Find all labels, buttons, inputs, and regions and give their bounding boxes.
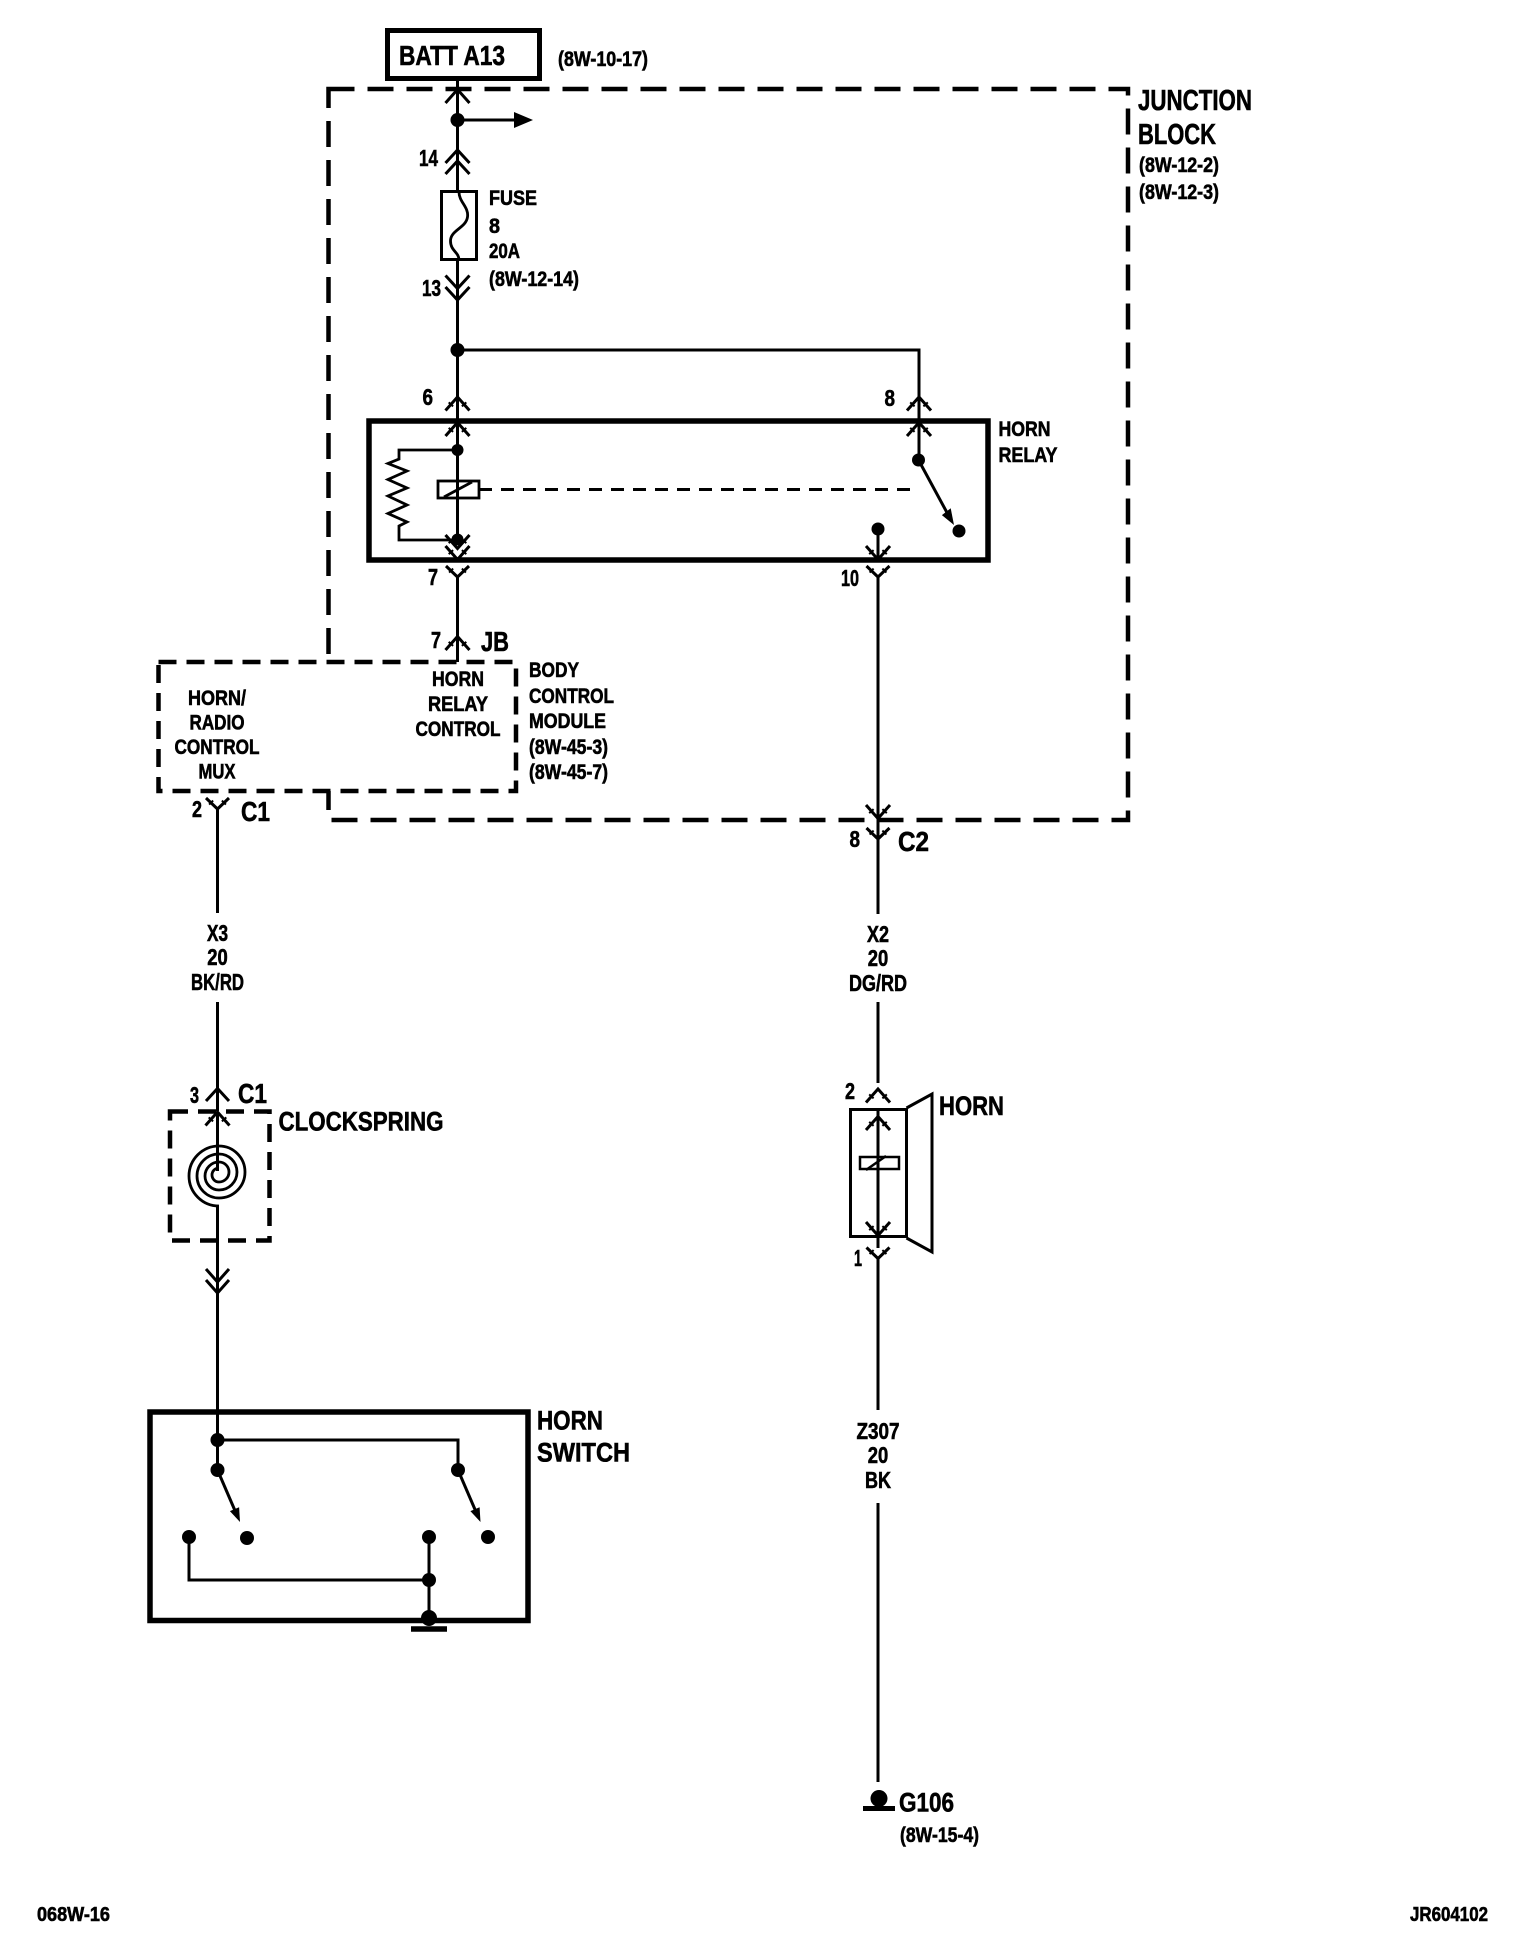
- svg-text:CONTROL: CONTROL: [529, 685, 614, 708]
- svg-text:20: 20: [207, 944, 228, 970]
- svg-text:RELAY: RELAY: [428, 693, 488, 716]
- svg-text:SWITCH: SWITCH: [537, 1438, 630, 1468]
- svg-text:3: 3: [190, 1082, 199, 1108]
- svg-text:HORN: HORN: [939, 1091, 1004, 1121]
- svg-text:MUX: MUX: [199, 761, 236, 784]
- svg-text:MODULE: MODULE: [529, 710, 606, 733]
- svg-text:C1: C1: [238, 1078, 267, 1109]
- svg-text:7: 7: [431, 627, 441, 653]
- svg-text:JR604102: JR604102: [1410, 1904, 1488, 1926]
- svg-text:HORN: HORN: [999, 418, 1051, 441]
- svg-text:C1: C1: [241, 796, 270, 827]
- svg-text:20: 20: [868, 945, 889, 971]
- svg-text:JB: JB: [481, 626, 509, 657]
- svg-text:2: 2: [845, 1078, 855, 1104]
- svg-text:BK: BK: [865, 1467, 891, 1493]
- svg-text:8: 8: [885, 385, 896, 411]
- svg-text:068W-16: 068W-16: [37, 1904, 110, 1926]
- svg-text:X2: X2: [867, 921, 889, 947]
- svg-text:BK/RD: BK/RD: [191, 969, 244, 995]
- svg-text:2: 2: [192, 796, 202, 822]
- svg-text:HORN: HORN: [432, 668, 484, 691]
- svg-text:6: 6: [423, 384, 434, 410]
- svg-text:20: 20: [868, 1442, 889, 1468]
- svg-text:RELAY: RELAY: [999, 444, 1058, 467]
- svg-text:CONTROL: CONTROL: [416, 718, 501, 741]
- svg-text:(8W-10-17): (8W-10-17): [558, 48, 648, 71]
- svg-text:CONTROL: CONTROL: [175, 736, 260, 759]
- svg-text:(8W-45-3): (8W-45-3): [529, 736, 608, 759]
- svg-text:(8W-12-2): (8W-12-2): [1139, 154, 1219, 177]
- svg-text:C2: C2: [898, 826, 929, 857]
- svg-text:G106: G106: [899, 1788, 954, 1818]
- svg-text:Z307: Z307: [857, 1418, 900, 1444]
- svg-text:X3: X3: [207, 920, 228, 946]
- svg-text:BATT A13: BATT A13: [399, 40, 505, 71]
- svg-text:RADIO: RADIO: [190, 712, 245, 735]
- svg-text:CLOCKSPRING: CLOCKSPRING: [279, 1107, 444, 1137]
- svg-text:10: 10: [841, 565, 859, 591]
- svg-text:HORN: HORN: [537, 1406, 603, 1436]
- svg-text:(8W-12-14): (8W-12-14): [489, 268, 579, 291]
- svg-text:BODY: BODY: [529, 659, 579, 682]
- svg-text:(8W-15-4): (8W-15-4): [900, 1824, 979, 1847]
- svg-text:FUSE: FUSE: [489, 187, 537, 210]
- svg-text:(8W-45-7): (8W-45-7): [529, 761, 608, 784]
- svg-text:7: 7: [428, 564, 438, 590]
- svg-text:13: 13: [422, 275, 441, 301]
- svg-text:BLOCK: BLOCK: [1138, 119, 1216, 151]
- svg-text:8: 8: [489, 215, 500, 238]
- svg-text:8: 8: [850, 826, 861, 852]
- svg-text:JUNCTION: JUNCTION: [1138, 85, 1252, 117]
- svg-text:(8W-12-3): (8W-12-3): [1139, 181, 1219, 204]
- svg-text:HORN/: HORN/: [188, 687, 246, 710]
- svg-text:DG/RD: DG/RD: [849, 970, 907, 996]
- svg-text:1: 1: [854, 1245, 862, 1271]
- svg-text:14: 14: [419, 145, 438, 171]
- svg-text:20A: 20A: [489, 240, 520, 263]
